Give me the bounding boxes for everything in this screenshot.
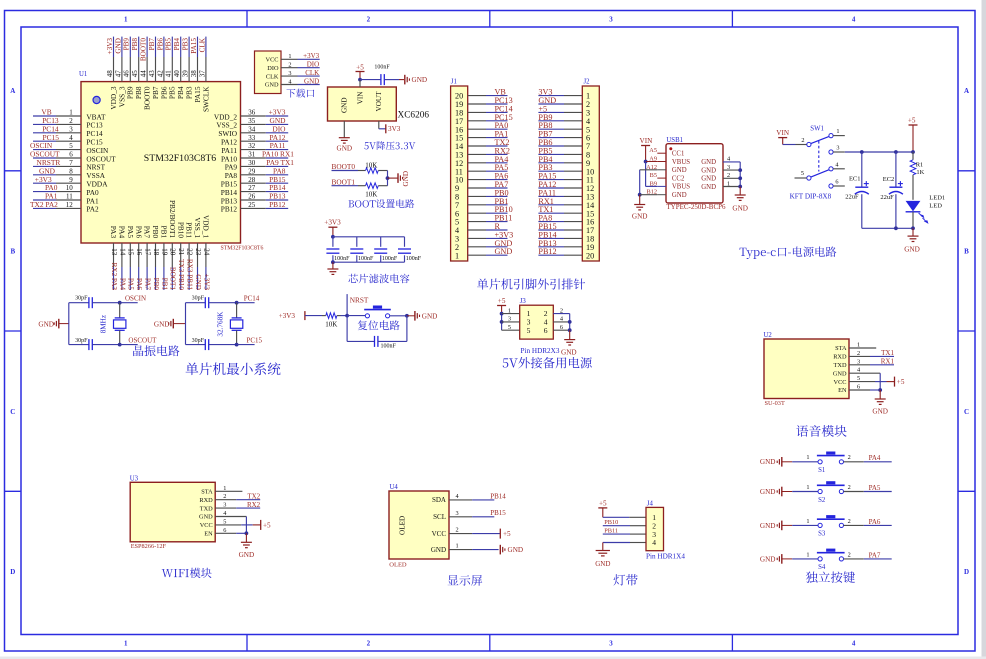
svg-text:TXD: TXD bbox=[200, 505, 213, 512]
wire to net label bottom (8MHz block) bbox=[120, 344, 138, 346]
svg-text:36: 36 bbox=[248, 109, 256, 117]
USB1 pin A5 CC1 bbox=[649, 147, 684, 157]
svg-text:4: 4 bbox=[852, 16, 856, 24]
J1 pin 5 wire + net PB11 bbox=[455, 214, 512, 227]
J2 pin 12 wire + net PA12 bbox=[538, 180, 594, 193]
svg-text:GND: GND bbox=[412, 76, 428, 84]
reset push button bbox=[365, 314, 369, 318]
node U3 EN-GND junction bbox=[245, 531, 249, 535]
caption BOOT setting circuit bbox=[349, 199, 415, 208]
svg-text:26: 26 bbox=[248, 193, 256, 201]
wire GND to S3 pin 1 bbox=[792, 524, 818, 526]
push button S1 bbox=[818, 460, 822, 464]
svg-text:PB8: PB8 bbox=[131, 38, 139, 51]
U1 pin 46 PB9 wire + net PB9 bbox=[123, 37, 135, 99]
U1 pin 47 VSS_3 wire + net GND bbox=[114, 37, 126, 108]
svg-text:9: 9 bbox=[69, 176, 73, 184]
J4 pin 4 wire to GND bbox=[603, 542, 630, 544]
svg-text:VCC: VCC bbox=[200, 522, 213, 529]
svg-text:GND: GND bbox=[114, 38, 122, 54]
svg-text:GND: GND bbox=[672, 192, 687, 199]
wire GND to S1 pin 1 bbox=[792, 461, 818, 463]
svg-text:NRST: NRST bbox=[350, 296, 369, 305]
svg-text:RX3 PB11: RX3 PB11 bbox=[186, 259, 194, 290]
svg-text:PB3: PB3 bbox=[182, 38, 190, 51]
wire crystal left rail (8MHz block) bbox=[68, 303, 70, 345]
svg-text:A: A bbox=[964, 87, 969, 95]
svg-text:S2: S2 bbox=[818, 497, 826, 504]
capacitor EC1 22uF bbox=[845, 152, 869, 228]
USB1 pin B12 GND bbox=[647, 189, 687, 199]
J1 pin 17 wire + net PC15 bbox=[455, 113, 513, 126]
module U2 body bbox=[764, 339, 849, 399]
LED1 blue LED bbox=[906, 195, 946, 229]
U1 pin 4 PC15 wire + net PC15 bbox=[33, 133, 103, 147]
nodes on bottom rail bbox=[894, 226, 898, 230]
svg-text:+5: +5 bbox=[908, 116, 916, 124]
wire junction to GND bar bbox=[388, 177, 398, 179]
J2 pin 19 wire + net PB13 bbox=[538, 239, 594, 252]
U1 pin 18 PB0 wire + net PB0 bbox=[151, 226, 160, 291]
svg-text:GND: GND bbox=[431, 546, 446, 554]
svg-text:4: 4 bbox=[69, 134, 73, 142]
J1 pin 2 wire + net GND bbox=[455, 239, 512, 252]
svg-text:OLED: OLED bbox=[398, 516, 406, 535]
svg-text:PB12: PB12 bbox=[221, 205, 238, 214]
svg-text:2: 2 bbox=[848, 484, 851, 491]
wire button to GND node bbox=[390, 315, 407, 317]
svg-text:31: 31 bbox=[248, 151, 256, 159]
svg-text:B5: B5 bbox=[650, 172, 657, 179]
svg-text:38: 38 bbox=[190, 70, 198, 78]
power GND bar of reset circuit bbox=[407, 315, 415, 317]
svg-text:3: 3 bbox=[727, 164, 730, 171]
XC6206 VOUT pin wire to 3V3 bbox=[378, 121, 380, 129]
U1 pin 12 PA2 wire + net TX2 PA2 bbox=[30, 200, 99, 214]
svg-text:BOOT0: BOOT0 bbox=[332, 162, 356, 171]
svg-text:PB5: PB5 bbox=[165, 38, 173, 51]
svg-text:13: 13 bbox=[110, 248, 118, 256]
J1 pin 8 wire + net PB0 bbox=[455, 188, 509, 201]
svg-text:45: 45 bbox=[131, 70, 139, 78]
U1 pin 7 NRST wire + net NRSTR bbox=[33, 158, 106, 172]
U1 pin 11 PA1 wire + net PA1 bbox=[33, 192, 99, 206]
svg-text:TX2 PA2: TX2 PA2 bbox=[30, 200, 58, 209]
U1 pin 32 PA11 wire + net PA11 bbox=[221, 141, 288, 155]
svg-text:GND: GND bbox=[337, 145, 353, 153]
svg-text:2: 2 bbox=[367, 16, 371, 24]
svg-text:27: 27 bbox=[248, 184, 256, 192]
svg-text:10K: 10K bbox=[365, 161, 377, 169]
U1 pin 37 SWCLK wire + net CLK bbox=[198, 37, 210, 112]
power GND bar of BOOT circuit bbox=[397, 173, 399, 183]
ground symbol of power circuit bbox=[912, 228, 914, 236]
J3 pin 3 wire bbox=[502, 321, 520, 323]
svg-text:PC15: PC15 bbox=[247, 336, 263, 344]
svg-text:BOOT0: BOOT0 bbox=[140, 38, 148, 62]
nodes on USB1 shell bus bbox=[738, 168, 742, 172]
svg-text:U4: U4 bbox=[390, 484, 399, 491]
svg-text:VBUS: VBUS bbox=[672, 184, 690, 191]
svg-text:SW1: SW1 bbox=[810, 126, 824, 133]
USB1 shell pin 2 GND bbox=[701, 172, 740, 183]
U4 pin 2 VCC wire + power +5 bbox=[432, 527, 511, 539]
wire bottom rail of power circuit bbox=[862, 227, 913, 229]
svg-text:GND: GND bbox=[904, 246, 920, 254]
capacitor 100nF at regulator input bbox=[380, 74, 382, 85]
wire to net label top (8MHz block) bbox=[120, 302, 138, 304]
svg-text:B: B bbox=[10, 248, 15, 256]
nodes on +5 rail bbox=[860, 150, 864, 154]
J3 pin 6 wire bbox=[553, 329, 569, 331]
svg-text:100nF: 100nF bbox=[382, 256, 398, 262]
svg-text:29: 29 bbox=[248, 167, 256, 175]
U1 pin 42 PB6 wire + net PB6 bbox=[156, 37, 168, 99]
svg-text:VIN: VIN bbox=[776, 129, 790, 137]
svg-text:1: 1 bbox=[455, 251, 459, 260]
svg-text:32: 32 bbox=[248, 142, 256, 150]
svg-text:PA6: PA6 bbox=[135, 278, 143, 291]
svg-text:OSCIN: OSCIN bbox=[125, 294, 146, 302]
svg-text:21: 21 bbox=[177, 248, 185, 256]
svg-text:VCC: VCC bbox=[432, 530, 447, 538]
power GND bar right of capacitor bbox=[404, 75, 406, 85]
node GND junction at USB1 bbox=[638, 193, 642, 197]
svg-text:GND: GND bbox=[872, 408, 888, 416]
svg-text:100nF: 100nF bbox=[374, 65, 390, 71]
svg-text:25: 25 bbox=[248, 201, 256, 209]
svg-text:5: 5 bbox=[801, 170, 804, 177]
svg-text:PA4: PA4 bbox=[118, 278, 126, 291]
svg-text:PA4: PA4 bbox=[118, 226, 127, 239]
download port pin 2 DIO wire + net DIO bbox=[267, 61, 319, 72]
svg-text:48: 48 bbox=[106, 70, 114, 78]
svg-text:8: 8 bbox=[69, 167, 73, 175]
USB1 pin B9 VBUS bbox=[650, 180, 691, 190]
caption independent buttons bbox=[806, 571, 855, 583]
push button S2 bbox=[818, 489, 822, 493]
capacitor 100nF filter #1 bbox=[326, 237, 350, 262]
J2 pin 1 wire + net 3V3 bbox=[538, 88, 590, 101]
U1 pin 40 PB4 wire + net PB4 bbox=[173, 37, 185, 99]
svg-text:+5: +5 bbox=[599, 499, 607, 507]
svg-text:10K: 10K bbox=[365, 190, 377, 198]
caption LED strip bbox=[614, 574, 638, 585]
svg-text:SWCLK: SWCLK bbox=[201, 86, 210, 112]
svg-text:100nF: 100nF bbox=[334, 256, 350, 262]
svg-text:2: 2 bbox=[848, 454, 851, 461]
wire GND A12 to left bbox=[640, 169, 658, 171]
svg-text:1: 1 bbox=[508, 307, 511, 314]
svg-text:GND: GND bbox=[701, 159, 716, 166]
svg-text:STM32F103C8T6: STM32F103C8T6 bbox=[221, 246, 264, 252]
caption 5V step-down 3.3V bbox=[364, 141, 415, 150]
XC6206 GND pin wire down bbox=[343, 121, 345, 138]
svg-text:43: 43 bbox=[148, 70, 156, 78]
svg-text:TX2: TX2 bbox=[247, 492, 260, 500]
U1 pin 39 PB3 wire + net PB3 bbox=[182, 37, 194, 99]
svg-text:RX2 PA3: RX2 PA3 bbox=[110, 263, 118, 291]
U1 pin 17 PA7 wire + net PA7 bbox=[143, 226, 152, 291]
U1 pin 45 PB8 wire + net PB8 bbox=[131, 37, 143, 99]
switch SW1 pole 2 (pins 4-5 lever) bbox=[795, 161, 845, 180]
resistor 10K on BOOT1 bbox=[358, 185, 366, 187]
svg-text:VIN: VIN bbox=[356, 91, 364, 105]
U4 pin 4 SDA wire + net PB14 bbox=[432, 492, 506, 504]
svg-text:PB10: PB10 bbox=[176, 222, 185, 239]
crystal 8MHz (8MHz block) bbox=[119, 303, 121, 318]
J2 pin 15 wire + net TX1 bbox=[538, 205, 594, 218]
svg-text:GND: GND bbox=[760, 488, 776, 496]
U1 pin 43 PB7 wire + net PB7 bbox=[148, 37, 160, 99]
svg-text:PA5: PA5 bbox=[869, 484, 881, 492]
svg-text:VDD_1: VDD_1 bbox=[202, 215, 211, 238]
wire GND junction to B12 bbox=[640, 194, 658, 196]
wire J3 right bus vertical bbox=[569, 314, 571, 331]
USB1 shell pin 1 GND bbox=[701, 180, 740, 191]
svg-text:TX3 PB10: TX3 PB10 bbox=[177, 259, 185, 290]
wire J3 left bus vertical bbox=[501, 314, 503, 331]
J2 pin 2 wire + net GND bbox=[538, 96, 590, 109]
svg-text:PB9: PB9 bbox=[123, 38, 131, 51]
push button S3 bbox=[818, 523, 822, 527]
net label BOOT0 wire bbox=[332, 170, 359, 172]
svg-text:CLK: CLK bbox=[266, 73, 279, 80]
svg-text:2: 2 bbox=[801, 137, 804, 144]
svg-text:KFT DIP-8X8: KFT DIP-8X8 bbox=[790, 192, 832, 200]
ground symbol below J3 bbox=[569, 330, 571, 339]
U1 pin 28 PB15 wire + net PB15 bbox=[221, 175, 288, 189]
net label NRST wire up bbox=[346, 294, 348, 316]
capacitor 100nF filter #3 bbox=[374, 237, 398, 262]
svg-text:1: 1 bbox=[288, 53, 291, 60]
push button S4 bbox=[818, 557, 822, 561]
caption MCU minimum system bbox=[186, 362, 281, 375]
svg-text:+3V3: +3V3 bbox=[303, 52, 320, 60]
svg-text:OLED: OLED bbox=[389, 561, 407, 568]
caption reset circuit bbox=[358, 320, 400, 330]
U1 pin 9 VDDA wire + net +3V3 bbox=[33, 175, 108, 189]
svg-text:VCC: VCC bbox=[266, 57, 279, 64]
svg-text:U2: U2 bbox=[764, 332, 773, 339]
svg-text:34: 34 bbox=[248, 125, 256, 133]
USB1 type-c connector body bbox=[666, 144, 723, 203]
svg-text:D: D bbox=[964, 568, 969, 576]
U1 pin 16 PA6 wire + net PA6 bbox=[134, 226, 143, 291]
J2 pin 8 wire + net PB5 bbox=[538, 146, 590, 159]
header J3 body bbox=[520, 305, 554, 339]
svg-text:1: 1 bbox=[836, 128, 839, 135]
svg-text:10K: 10K bbox=[325, 321, 337, 329]
svg-text:S3: S3 bbox=[818, 531, 826, 538]
svg-text:3: 3 bbox=[69, 125, 73, 133]
svg-text:GND: GND bbox=[422, 312, 438, 320]
svg-text:6: 6 bbox=[544, 326, 548, 335]
svg-text:3: 3 bbox=[223, 502, 226, 509]
caption 5V external backup power bbox=[503, 357, 592, 368]
svg-text:J2: J2 bbox=[584, 79, 591, 86]
capacitor 100nF reset bbox=[347, 316, 407, 350]
svg-text:3: 3 bbox=[288, 70, 291, 77]
U1 pin 33 PA12 wire + net PA12 bbox=[221, 133, 288, 147]
svg-text:1: 1 bbox=[69, 109, 73, 117]
svg-text:PB6: PB6 bbox=[156, 38, 164, 51]
svg-text:GND: GND bbox=[341, 97, 349, 113]
ground symbol below U3 bbox=[245, 533, 247, 542]
svg-text:6: 6 bbox=[69, 151, 73, 159]
MCU U1 STM32F103C8T6 body bbox=[81, 82, 241, 243]
U1 pin 10 PA0 wire + net PA0 bbox=[33, 183, 99, 197]
svg-text:CC1: CC1 bbox=[672, 151, 684, 158]
U4 pin 1 GND wire + power GND bar bbox=[431, 543, 523, 555]
U1 pin 41 PB5 wire + net PB5 bbox=[165, 37, 177, 99]
wire USB1 shell pins vertical bbox=[739, 162, 741, 187]
capacitor 30pF bottom (8MHz block) bbox=[69, 344, 89, 346]
svg-text:DIO: DIO bbox=[267, 65, 279, 72]
svg-text:+5: +5 bbox=[503, 530, 511, 538]
svg-text:OSCOUT: OSCOUT bbox=[128, 336, 157, 344]
svg-text:1: 1 bbox=[806, 484, 809, 491]
SW1 pin 3 wire to power rail bbox=[829, 150, 833, 154]
J1 pin 6 wire + net PB10 bbox=[455, 205, 513, 218]
page edge shadow strips bbox=[982, 0, 986, 659]
svg-text:GND: GND bbox=[760, 458, 776, 466]
J2 pin 5 wire + net PB8 bbox=[538, 121, 590, 134]
svg-text:PC14: PC14 bbox=[244, 294, 260, 302]
svg-text:J3: J3 bbox=[520, 298, 527, 305]
svg-text:19: 19 bbox=[160, 248, 168, 256]
node +5/VIN junction bbox=[358, 78, 362, 82]
USB1 pin A12 GND bbox=[646, 164, 687, 174]
svg-text:PB10: PB10 bbox=[604, 519, 618, 526]
J1 pin 7 wire + net PB1 bbox=[455, 197, 509, 210]
svg-text:3: 3 bbox=[508, 316, 511, 323]
svg-text:C: C bbox=[964, 408, 969, 416]
svg-text:A5: A5 bbox=[649, 147, 657, 154]
ground symbol below U2 bbox=[879, 390, 881, 399]
U1 pin 20 PB2/BOOT1 wire + net BOOT1 bbox=[168, 200, 177, 290]
wire +5 node to capacitor bbox=[360, 79, 381, 81]
U1 pin 21 PB10 wire + net TX3 PB10 bbox=[176, 222, 185, 291]
svg-text:GND: GND bbox=[632, 213, 648, 221]
capacitor 100nF filter #2 bbox=[350, 237, 374, 262]
svg-text:12: 12 bbox=[66, 201, 74, 209]
node crystal bottom (32.768K block) bbox=[235, 343, 239, 347]
svg-text:PA7: PA7 bbox=[869, 551, 881, 559]
USB1 pin-1 mark dot bbox=[669, 147, 672, 150]
svg-text:D: D bbox=[10, 568, 15, 576]
wire to net label bottom (32.768K block) bbox=[237, 344, 255, 346]
svg-text:EC1: EC1 bbox=[849, 176, 861, 183]
caption voice module bbox=[796, 425, 846, 437]
USB1 shell pin 3 GND bbox=[701, 164, 740, 175]
svg-text:GND: GND bbox=[760, 555, 776, 563]
svg-text:30pF: 30pF bbox=[192, 296, 205, 302]
svg-text:PA7: PA7 bbox=[144, 278, 152, 291]
J2 pin 18 wire + net PB14 bbox=[538, 230, 594, 243]
svg-text:2: 2 bbox=[848, 551, 851, 558]
svg-text:GND: GND bbox=[194, 274, 202, 290]
J1 pin 11 wire + net PA5 bbox=[455, 163, 508, 176]
svg-text:PB11: PB11 bbox=[185, 222, 194, 238]
resistor R1 1K bbox=[910, 152, 924, 200]
svg-text:100nF: 100nF bbox=[381, 344, 397, 350]
wire filter top rail bbox=[333, 236, 405, 238]
svg-text:Pin HDR2X3: Pin HDR2X3 bbox=[521, 347, 560, 355]
svg-text:BOOT1: BOOT1 bbox=[169, 267, 177, 291]
svg-text:PB2/BOOT1: PB2/BOOT1 bbox=[168, 200, 177, 238]
svg-text:7: 7 bbox=[69, 159, 73, 167]
svg-text:1: 1 bbox=[857, 342, 860, 349]
J3 pin 2 wire bbox=[553, 313, 569, 315]
wire BOOT junction vertical bbox=[387, 171, 389, 186]
svg-text:11: 11 bbox=[66, 193, 73, 201]
display module U4 body bbox=[389, 491, 449, 559]
capacitor EC2 22uF bbox=[880, 152, 903, 228]
download port 4-pin header body bbox=[255, 51, 282, 94]
wire resistor to NRST node bbox=[341, 315, 348, 317]
nodes J3 right bus bbox=[568, 320, 572, 324]
svg-text:100nF: 100nF bbox=[406, 256, 422, 262]
svg-text:24: 24 bbox=[202, 248, 210, 256]
capacitor 30pF bottom (32.768K block) bbox=[186, 344, 206, 346]
capacitor 30pF top (8MHz block) bbox=[69, 302, 89, 304]
J4 pin 1 wire from +5 bbox=[603, 516, 630, 518]
USB1 pin B5 CC2 bbox=[650, 172, 685, 182]
svg-text:RX2: RX2 bbox=[247, 501, 261, 509]
svg-text:8MHz: 8MHz bbox=[100, 315, 108, 333]
wire crystal left rail (32.768K block) bbox=[185, 303, 187, 345]
J1 pin 9 wire + net PA7 bbox=[455, 180, 508, 193]
nodes J3 left bus bbox=[500, 312, 504, 316]
wire GND to S2 pin 1 bbox=[792, 491, 818, 493]
svg-text:GND: GND bbox=[154, 320, 170, 328]
U1 pin 25 PB12 wire + net PB12 bbox=[221, 200, 288, 214]
svg-text:10: 10 bbox=[66, 184, 74, 192]
wire VIN to VBUS A9 bbox=[646, 161, 658, 163]
svg-text:3: 3 bbox=[857, 358, 860, 365]
svg-text:Pin HDR1X4: Pin HDR1X4 bbox=[646, 552, 685, 560]
U1 pin 36 VDD_2 wire + net +3V3 bbox=[214, 108, 288, 122]
svg-text:PA4: PA4 bbox=[869, 454, 881, 462]
U1 pin 3 PC14 wire + net PC14 bbox=[33, 124, 103, 138]
svg-text:GND: GND bbox=[265, 82, 279, 89]
svg-text:+5: +5 bbox=[897, 378, 905, 386]
svg-text:GND: GND bbox=[199, 514, 213, 521]
U1 pin 29 PA8 wire + net PA8 bbox=[225, 166, 289, 180]
U1 pin-1 indicator circle bbox=[93, 96, 100, 103]
svg-text:GND: GND bbox=[38, 320, 54, 328]
ground symbol below USB1 right bbox=[739, 187, 741, 196]
header J2 body bbox=[582, 86, 599, 261]
svg-text:6: 6 bbox=[560, 324, 563, 331]
svg-text:5: 5 bbox=[69, 142, 73, 150]
U1 pin 19 PB1 wire + net PB1 bbox=[160, 226, 169, 291]
U1 pin 27 PB14 wire + net PB14 bbox=[221, 183, 288, 197]
svg-text:PA6: PA6 bbox=[134, 226, 143, 239]
U1 pin 23 VSS_1 wire + net GND bbox=[193, 217, 202, 290]
wire GND to S4 pin 1 bbox=[792, 558, 818, 560]
svg-text:EN: EN bbox=[204, 531, 213, 538]
U1 pin 26 PB13 wire + net PB13 bbox=[221, 192, 288, 206]
svg-text:BOOT1: BOOT1 bbox=[332, 177, 356, 186]
U1 pin 8 VSSA wire + net GND bbox=[33, 166, 106, 180]
svg-text:14: 14 bbox=[118, 248, 126, 256]
svg-text:STA: STA bbox=[835, 345, 847, 352]
J4 inner pin numbers bbox=[652, 513, 656, 547]
svg-text:PB4: PB4 bbox=[173, 38, 181, 51]
svg-text:2: 2 bbox=[727, 172, 730, 179]
